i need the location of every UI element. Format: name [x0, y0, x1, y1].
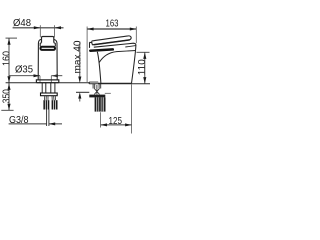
- dim Ø35 leader line left: [9, 75, 40, 77]
- side view: deck bottom line: [76, 91, 89, 93]
- side view: deck top line: [89, 83, 150, 85]
- dim 110 arrow down: [143, 77, 146, 84]
- faucet body (front view): [38, 40, 57, 81]
- crossing hoses (side view): [94, 85, 99, 94]
- Ø35 extension line left: [39, 76, 41, 83]
- dim 125 arrow left: [101, 123, 108, 126]
- spout outlet dark bar (side view): [90, 49, 113, 50]
- max.40 arrow up to deck bottom: [78, 92, 81, 99]
- hose connector left (front view): [43, 100, 49, 109]
- G3/8 leader line: [9, 123, 62, 125]
- hose connectors (side view): [95, 97, 100, 111]
- locking nut (side view): [89, 95, 105, 98]
- shank columns below deck (front view): [42, 83, 55, 93]
- svg-text:163: 163: [106, 18, 119, 30]
- lever back dark seam: [94, 40, 130, 45]
- svg-text:Ø48: Ø48: [13, 17, 31, 29]
- dim 160 tick top: [6, 37, 18, 39]
- handle lever (side view): [92, 36, 131, 45]
- extension line right of Ø48: [54, 25, 56, 37]
- nut bar (front view): [41, 93, 58, 96]
- 125 extension right (from deck): [131, 84, 133, 133]
- 163 extension right: [135, 27, 137, 44]
- deck line left view: [6, 83, 90, 84]
- hose connector right (front view): [52, 100, 58, 109]
- dim 350 line: [8, 83, 10, 111]
- svg-text:350: 350: [1, 89, 13, 103]
- G3/8 arrow: [49, 122, 56, 125]
- dim 160 arrow up: [7, 38, 10, 45]
- dim 350 arrow down: [7, 104, 10, 111]
- dim 125 arrow right: [125, 123, 132, 126]
- dim 163 line: [87, 28, 136, 30]
- extension line left of Ø48: [39, 25, 41, 37]
- max.40 arrow down to deck top: [78, 77, 81, 84]
- 125 extension left (from hose end): [100, 112, 102, 127]
- shank below deck (side view): [93, 84, 101, 89]
- svg-text:110: 110: [136, 59, 148, 75]
- dim 350 arrow up to deck: [7, 83, 10, 90]
- dim Ø35 arrow right: [34, 74, 41, 77]
- side view foot lip: [89, 82, 98, 84]
- handle flare (front view): [40, 43, 55, 47]
- flange bottom thick edge: [37, 82, 59, 84]
- hose tails below nut (front view): [44, 96, 55, 101]
- body shoulder line (side view): [99, 51, 136, 63]
- base bottom line (side view): [98, 82, 132, 84]
- dim 110 arrow up: [143, 52, 146, 59]
- dim Ø48 arrow right: [34, 26, 41, 29]
- dim 163 arrow right: [130, 28, 137, 31]
- handle dark bottom band (front view): [41, 47, 56, 50]
- 163 extension left: [86, 27, 88, 83]
- dim 110 line: [144, 52, 146, 83]
- dim Ø48 arrow left: [55, 26, 62, 29]
- faucet body (side view): [90, 42, 136, 83]
- dim 160 arrow down: [7, 76, 10, 83]
- dim Ø48 line: [13, 27, 64, 29]
- body lower slab line at back: [125, 46, 136, 47]
- handle cap (front view): [42, 37, 54, 43]
- svg-text:160: 160: [1, 51, 13, 66]
- dim 350 tick bottom: [1, 109, 13, 111]
- svg-text:Ø35: Ø35: [15, 64, 33, 76]
- dim 110 tick top: [137, 51, 150, 53]
- stud lines below connectors: [47, 110, 49, 127]
- dim 163 arrow left: [87, 28, 94, 31]
- side view: deck bottom stub right: [105, 92, 111, 94]
- Ø35 extension line right: [50, 76, 52, 83]
- max.40 stub above: [79, 42, 81, 77]
- dim Ø35 arrow left with tail: [51, 74, 58, 77]
- base flange (front view): [36, 80, 58, 83]
- dim 160 line: [8, 38, 10, 83]
- dim 125 line: [101, 124, 132, 126]
- max.40 stub below: [79, 99, 81, 102]
- svg-text:max.40: max.40: [72, 40, 83, 73]
